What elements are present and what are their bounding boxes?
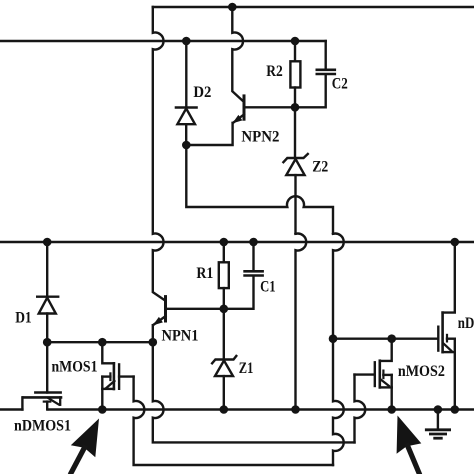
- node D2 bottom / NPN2 emitter junction: [182, 141, 191, 150]
- node nDMOS2 source on bottom rail: [451, 405, 460, 414]
- svg-text:nMOS2: nMOS2: [398, 363, 445, 380]
- wire NPN1-emitter net down (hops bottom rail) to y442 wire: [153, 342, 355, 442]
- capacitor C2: [295, 41, 335, 107]
- wire D1 anode lead: [46, 242, 48, 297]
- zener Z1: [212, 356, 236, 410]
- node R1 bottom / NPN1 base junction: [220, 305, 229, 314]
- arrow pointer right: [397, 416, 422, 473]
- wire nMOS1 gate down (hops bottom rail) to bottom wire: [134, 377, 333, 465]
- wire y=339 net to nDMOS2 gate: [333, 338, 438, 340]
- arrow pointer left: [71, 419, 99, 473]
- wire D2 anode lead: [185, 41, 187, 108]
- label NPN1: [162, 328, 199, 345]
- label R1: [196, 265, 213, 282]
- node D1 bottom junction: [43, 338, 52, 347]
- label NPN2: [241, 129, 279, 146]
- wire x=333 vertical (hops y242 rail): [333, 234, 344, 339]
- label C2: [332, 76, 348, 93]
- node nMOS1 drain tap: [98, 338, 107, 347]
- wire mid rail y=242: [0, 241, 474, 243]
- wire NPN2 collector vertical (hops y41 rail): [232, 7, 243, 101]
- node top junction: [228, 3, 237, 12]
- transistor nDMOS2: [438, 242, 455, 410]
- node Z1 bottom on bottom rail: [220, 405, 229, 414]
- transistor nMOS1: [102, 342, 133, 409]
- transistor nMOS2: [355, 339, 392, 410]
- svg-text:C1: C1: [260, 279, 276, 296]
- label R2: [266, 63, 283, 80]
- node nMOS2 drain tap: [387, 334, 396, 343]
- wire Z2 top lead: [294, 107, 296, 158]
- svg-text:Z2: Z2: [312, 158, 328, 175]
- label D1: [15, 310, 32, 327]
- svg-text:nDMOS1: nDMOS1: [14, 418, 71, 435]
- resistor R2: [290, 41, 300, 107]
- label nMOS1: [52, 359, 98, 376]
- svg-text:C2: C2: [332, 76, 348, 93]
- wire Z1 top lead: [223, 309, 225, 360]
- node NPN1 emitter tap: [149, 338, 158, 347]
- node D2 top: [182, 37, 191, 46]
- wire Z2 bottom vertical (hops y242 rail) down to bottom rail: [296, 234, 307, 410]
- node Z2 net on bottom rail: [291, 405, 300, 414]
- node R2 bottom / NPN2 base junction: [291, 103, 300, 112]
- diode D1: [37, 297, 58, 343]
- svg-text:nD: nD: [458, 315, 474, 332]
- label C1: [260, 279, 276, 296]
- label Z2: [312, 158, 328, 175]
- svg-text:Z1: Z1: [239, 360, 254, 377]
- wire NPN1 collector vertical (hops y41 and y242 rails): [153, 7, 165, 300]
- svg-text:R2: R2: [266, 63, 283, 80]
- node D1 top: [43, 238, 52, 247]
- node R1 top: [220, 238, 229, 247]
- transistor nDMOS1: [22, 342, 61, 409]
- transistor NPN1: [153, 297, 224, 343]
- node C1 top: [249, 238, 258, 247]
- node ground tap on bottom rail: [434, 405, 443, 414]
- label nDMOS2 (clipped): [458, 315, 474, 332]
- wire x=333 vertical lower (hops bottom rail and y442 wire): [333, 339, 344, 465]
- wire bottom rail right segment: [49, 408, 474, 410]
- label Z1: [239, 360, 254, 377]
- wire top rail: [153, 6, 474, 8]
- svg-text:NPN2: NPN2: [241, 129, 279, 146]
- wire NPN2-emitter net down and across y=207 (hump over Z2 line): [186, 145, 333, 234]
- node x333 tap on y339 wire: [329, 334, 338, 343]
- wire NPN2 emitter to junction: [186, 123, 232, 145]
- capacitor C1: [224, 242, 263, 309]
- wire bottom rail left segment: [0, 408, 22, 410]
- svg-text:R1: R1: [196, 265, 213, 282]
- svg-text:NPN1: NPN1: [162, 328, 199, 345]
- wire nMOS2 gate down (hops bottom rail) to y442 wire: [355, 375, 366, 443]
- label nDMOS1: [14, 418, 71, 435]
- node nMOS2 source on bottom rail: [387, 405, 396, 414]
- svg-text:D2: D2: [193, 84, 211, 101]
- wire second rail y=41: [0, 40, 326, 42]
- ground: [426, 410, 449, 439]
- node nMOS1 source on bottom rail: [98, 405, 107, 414]
- diode D2: [176, 108, 197, 146]
- svg-text:D1: D1: [15, 310, 32, 327]
- resistor R1: [219, 242, 229, 309]
- node nDMOS2 drain top: [451, 238, 460, 247]
- label D2: [193, 84, 211, 101]
- node R2 top: [291, 37, 300, 46]
- svg-text:nMOS1: nMOS1: [52, 359, 98, 376]
- label nMOS2: [398, 363, 445, 380]
- transistor NPN2: [232, 96, 295, 124]
- wire y=342 net: [47, 341, 153, 343]
- zener Z2: [283, 154, 307, 234]
